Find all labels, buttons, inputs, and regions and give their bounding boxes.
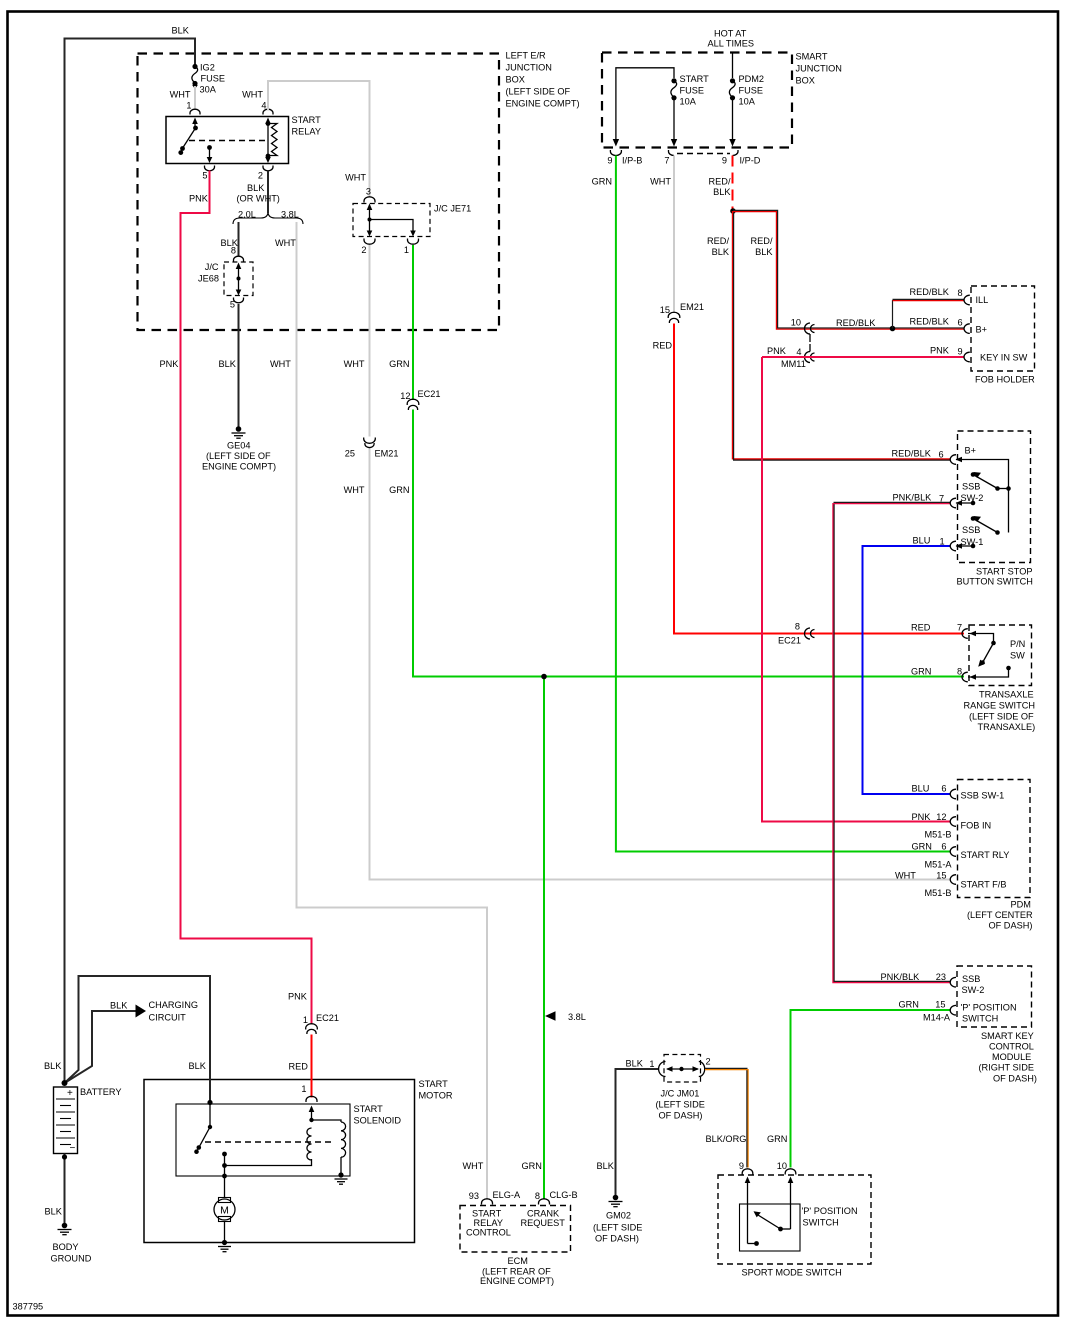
J/C JM01 connectors and internals [659, 1057, 711, 1077]
wire RED EC21 to start motor pin 1 [289, 1035, 312, 1098]
connector EC21 pin 12 (in-line, domes down) [407, 399, 419, 410]
wire WHT fuse to relay pin 1 [170, 86, 195, 111]
svg-text:SW: SW [1010, 651, 1025, 661]
svg-text:EM21: EM21 [680, 302, 704, 312]
svg-text:OF DASH): OF DASH) [595, 1234, 639, 1244]
svg-text:ELG-A: ELG-A [493, 1190, 521, 1200]
connector arc fob holder KEY IN SW pin 9 [964, 352, 970, 362]
wire PNK MM11 to fob holder KEY IN SW and PDM FOB IN [762, 346, 964, 840]
svg-text:2.0L: 2.0L [238, 210, 256, 220]
svg-text:OF DASH): OF DASH) [659, 1111, 703, 1121]
wire RED/BLK junction to fob holder B+/ILL (two-tone) [733, 210, 964, 329]
svg-text:1: 1 [940, 537, 945, 547]
svg-text:BLK/ORG: BLK/ORG [706, 1134, 747, 1144]
wire RED EM21 to EC21 pin 8 and transaxle pin 7 [653, 324, 964, 646]
svg-text:FOB HOLDER: FOB HOLDER [975, 375, 1035, 385]
svg-text:1: 1 [404, 245, 409, 255]
wire BLK battery to charging circuit [65, 1000, 199, 1083]
svg-text:10A: 10A [680, 97, 697, 107]
smart junction box (dashed enclosure) [602, 29, 842, 148]
wire BLK battery positive to start motor [65, 976, 211, 1103]
svg-text:+: + [67, 1088, 73, 1099]
svg-text:MOTOR: MOTOR [419, 1091, 453, 1101]
wire RED/BLK dashed I/P-D to junction [709, 156, 733, 212]
svg-text:SMART: SMART [796, 52, 828, 62]
svg-text:FUSE: FUSE [201, 74, 226, 84]
svg-text:J/C JE71: J/C JE71 [434, 204, 471, 214]
sport mode switch internals ('P' position switch) [745, 1177, 794, 1246]
wire BLK J/C JM01 to ground GM02 [597, 1059, 659, 1197]
svg-text:START F/B: START F/B [961, 880, 1007, 890]
transaxle range switch internals (P/N SW) [968, 631, 1011, 680]
svg-text:'P' POSITION: 'P' POSITION [961, 1003, 1017, 1013]
svg-text:BLK: BLK [189, 1061, 207, 1071]
svg-text:GE04: GE04 [227, 441, 251, 451]
svg-text:BATTERY: BATTERY [80, 1087, 122, 1097]
svg-text:WHT: WHT [895, 871, 916, 881]
node junction on GRN at (544,676.5) [541, 674, 547, 680]
svg-text:10A: 10A [739, 97, 756, 107]
svg-text:ALL TIMES: ALL TIMES [708, 39, 754, 49]
svg-text:GRN: GRN [389, 359, 409, 369]
svg-text:(OR WHT): (OR WHT) [237, 194, 280, 204]
svg-text:BLK: BLK [712, 247, 730, 257]
wire WHT 3.8L branch to ECM START RELAY CONTROL [270, 222, 521, 1201]
motor M [214, 1198, 235, 1243]
svg-text:BLK: BLK [110, 1001, 128, 1011]
fuse PDM2 FUSE 10A [729, 74, 764, 107]
svg-text:GRN: GRN [767, 1134, 787, 1144]
wire BLK battery to IG2 fuse [65, 26, 196, 1084]
connector MM11 pin 4 (in-line, opens right) [805, 352, 815, 363]
svg-text:8: 8 [231, 246, 236, 256]
svg-text:RED: RED [911, 623, 931, 633]
3.8L tag arrow on GRN wire [545, 1011, 586, 1022]
svg-text:CLG-B: CLG-B [550, 1190, 578, 1200]
svg-text:BLK: BLK [597, 1161, 615, 1171]
sport mode switch box [718, 1175, 871, 1278]
svg-text:EC21: EC21 [778, 636, 801, 646]
connector arc PDM SSB SW-1 pin 6 [950, 789, 956, 799]
svg-text:START: START [292, 115, 322, 125]
svg-text:RED/BLK: RED/BLK [892, 449, 932, 459]
svg-text:3.8L: 3.8L [281, 210, 299, 220]
svg-text:START: START [472, 1209, 502, 1219]
J/C JE71 box [353, 204, 471, 237]
svg-text:(LEFT REAR OF: (LEFT REAR OF [482, 1267, 551, 1277]
J/C JM01 box [656, 1055, 705, 1121]
svg-text:JUNCTION: JUNCTION [506, 63, 552, 73]
svg-text:BLU: BLU [912, 784, 930, 794]
connector EC21 pin 8 (in-line, opens right) [805, 628, 815, 639]
svg-text:387795: 387795 [13, 1302, 44, 1312]
svg-text:WHT: WHT [344, 359, 365, 369]
svg-text:BODY: BODY [53, 1242, 79, 1252]
svg-text:REQUEST: REQUEST [521, 1218, 566, 1228]
svg-text:START RLY: START RLY [961, 850, 1010, 860]
connector arc JE71 pin 2 [364, 239, 375, 245]
svg-text:PNK: PNK [160, 359, 180, 369]
svg-text:BLK: BLK [44, 1061, 62, 1071]
svg-text:PNK/BLK: PNK/BLK [881, 972, 921, 982]
svg-text:30A: 30A [200, 85, 217, 95]
PDM box [958, 780, 1034, 931]
wire BLK 2.0L branch to J/C JE68 [221, 222, 239, 256]
svg-text:PNK: PNK [912, 812, 932, 822]
svg-text:TRANSAXLE: TRANSAXLE [979, 690, 1034, 700]
svg-text:1: 1 [186, 101, 191, 111]
svg-text:EC21: EC21 [418, 389, 441, 399]
svg-text:J/C JM01: J/C JM01 [661, 1089, 700, 1099]
svg-text:15: 15 [660, 305, 670, 315]
'P' position switch inner box [740, 1204, 858, 1251]
svg-text:(LEFT SIDE OF: (LEFT SIDE OF [506, 87, 571, 97]
svg-text:15: 15 [935, 1000, 945, 1010]
svg-text:5: 5 [230, 300, 235, 310]
svg-text:23: 23 [936, 972, 946, 982]
svg-text:SOLENOID: SOLENOID [354, 1116, 402, 1126]
connector EC21 pin 1 (in-line) [306, 1024, 318, 1034]
svg-text:1: 1 [303, 1015, 308, 1025]
svg-text:EC21: EC21 [316, 1013, 339, 1023]
svg-text:12: 12 [400, 391, 410, 401]
connector arc JE71 pin 1 [408, 239, 419, 245]
svg-text:(RIGHT SIDE: (RIGHT SIDE [979, 1063, 1034, 1073]
connector arc I/P-B pin 9 [610, 150, 621, 156]
transaxle range switch box [964, 625, 1036, 732]
wire BLK battery negative to body ground [45, 1154, 68, 1225]
svg-text:HOT AT: HOT AT [714, 29, 747, 39]
start solenoid internals [194, 1100, 345, 1175]
svg-text:6: 6 [941, 784, 946, 794]
start motor box [144, 1079, 453, 1243]
svg-text:JUNCTION: JUNCTION [796, 64, 842, 74]
svg-text:SW-2: SW-2 [962, 985, 985, 995]
svg-text:WHT: WHT [344, 485, 365, 495]
SJB output arrows at box edge [613, 139, 619, 147]
svg-text:RED/BLK: RED/BLK [836, 318, 876, 328]
svg-text:RELAY: RELAY [474, 1218, 503, 1228]
connector arc fob holder B+ pin 6 [964, 324, 970, 334]
svg-text:RED/BLK: RED/BLK [910, 287, 950, 297]
svg-text:PDM2: PDM2 [739, 74, 765, 84]
svg-text:8: 8 [535, 1191, 540, 1201]
svg-text:SMART KEY: SMART KEY [981, 1031, 1034, 1041]
svg-text:OF DASH): OF DASH) [989, 921, 1033, 931]
svg-text:BLK: BLK [755, 247, 773, 257]
svg-text:BLK: BLK [713, 187, 731, 197]
svg-text:RED/: RED/ [707, 236, 729, 246]
start relay internals: pin1 arrow, switch blade, pin5, coil, pin2 [178, 118, 277, 164]
svg-text:CONTROL: CONTROL [466, 1228, 511, 1238]
svg-text:10: 10 [777, 1161, 787, 1171]
connector arc ECM pin 93 [482, 1199, 493, 1205]
svg-text:PNK: PNK [767, 346, 787, 356]
wire PNK/BLK start stop SW-2 to smart key module (two-tone) [833, 493, 950, 983]
connector arc PDM START F/B pin 15 [950, 875, 956, 885]
2.0L / 3.8L split bracket [233, 210, 303, 225]
svg-text:IG2: IG2 [200, 63, 215, 73]
svg-text:WHT: WHT [463, 1161, 484, 1171]
svg-text:10: 10 [791, 318, 801, 328]
connector arc relay pin 4 [263, 109, 273, 114]
svg-text:8: 8 [958, 288, 963, 298]
svg-text:RED/BLK: RED/BLK [910, 317, 950, 327]
svg-text:M51-B: M51-B [925, 830, 952, 840]
connector arc start stop B+ pin 6 [950, 455, 956, 465]
svg-text:(LEFT SIDE: (LEFT SIDE [656, 1100, 705, 1110]
connector arc relay pin 5 [205, 166, 215, 171]
svg-text:7: 7 [957, 623, 962, 633]
svg-text:1: 1 [649, 1059, 654, 1069]
connector arc relay pin 2 [263, 166, 273, 171]
svg-text:EM21: EM21 [375, 449, 399, 459]
svg-text:RED/: RED/ [751, 236, 773, 246]
svg-text:PNK: PNK [288, 992, 308, 1002]
svg-text:PNK/BLK: PNK/BLK [893, 493, 933, 503]
svg-text:ILL: ILL [976, 295, 989, 305]
wire RED/BLK riser to ILL (two-tone) [893, 287, 965, 329]
svg-text:SSB: SSB [962, 525, 980, 535]
svg-text:'P' POSITION: 'P' POSITION [802, 1206, 858, 1216]
svg-text:ECM: ECM [508, 1256, 528, 1266]
svg-text:(LEFT CENTER: (LEFT CENTER [967, 910, 1033, 920]
connector arc ECM pin 8 CLG-B [539, 1199, 550, 1205]
svg-text:J/C: J/C [205, 262, 219, 272]
smart key control module box [957, 966, 1037, 1084]
start solenoid inner box [176, 1104, 401, 1176]
node battery positive junction [62, 1080, 68, 1086]
svg-text:BLK: BLK [626, 1059, 644, 1069]
wire WHT relay pin4 to J/C JE71 pin 3 [242, 81, 371, 198]
svg-text:5: 5 [202, 171, 207, 181]
fob holder box [971, 286, 1035, 385]
svg-text:FUSE: FUSE [680, 86, 705, 96]
svg-text:GRN: GRN [389, 485, 409, 495]
connector arc PDM START RLY pin 6 [950, 847, 956, 857]
start stop button switch box [957, 431, 1033, 587]
wire BLU start stop SW-1 to PDM SSB SW-1 [863, 536, 951, 795]
connector arc smart key 'P' position pin 15 M14-A [950, 1005, 956, 1015]
svg-text:MM11: MM11 [781, 359, 806, 369]
svg-text:START: START [680, 74, 710, 84]
svg-text:6: 6 [939, 450, 944, 460]
svg-text:BOX: BOX [796, 76, 815, 86]
svg-text:7: 7 [939, 494, 944, 504]
svg-text:WHT: WHT [650, 177, 671, 187]
svg-text:WHT: WHT [242, 90, 263, 100]
svg-text:8: 8 [957, 667, 962, 677]
svg-text:6: 6 [941, 842, 946, 852]
svg-text:GRN: GRN [911, 667, 931, 677]
svg-text:M51-B: M51-B [925, 888, 952, 898]
J/C JE68 box [198, 262, 253, 296]
svg-text:KEY IN SW: KEY IN SW [980, 353, 1028, 363]
start relay box [166, 115, 321, 164]
svg-text:P/N: P/N [1010, 639, 1025, 649]
svg-text:BOX: BOX [506, 75, 525, 85]
svg-text:SSB: SSB [962, 482, 980, 492]
wire GRN smart key 'P' position to sport mode switch pin 10 [767, 1000, 951, 1172]
connector EM21 pin 25 (in-line, cups up) [364, 438, 376, 448]
svg-text:CONTROL: CONTROL [989, 1042, 1034, 1052]
svg-text:3.8L: 3.8L [568, 1012, 586, 1022]
svg-text:B+: B+ [965, 446, 977, 456]
connector arc J/C JE71 pin 3 [364, 197, 375, 203]
J/C JE68 internals [236, 263, 242, 296]
wire BLK (OR WHT) relay pin2 [237, 171, 280, 214]
svg-text:GROUND: GROUND [51, 1254, 92, 1264]
svg-text:25: 25 [345, 449, 355, 459]
svg-text:SSB: SSB [962, 974, 980, 984]
svg-text:9: 9 [958, 347, 963, 357]
svg-text:RED: RED [289, 1062, 309, 1072]
ground GE04 [202, 426, 276, 471]
svg-text:(LEFT SIDE: (LEFT SIDE [593, 1223, 642, 1233]
connector arc start motor pin 1 [306, 1096, 317, 1102]
svg-text:SWITCH: SWITCH [962, 1014, 998, 1024]
svg-text:4: 4 [261, 101, 266, 111]
svg-text:MODULE: MODULE [992, 1052, 1031, 1062]
ground at start motor bottom [218, 1240, 231, 1252]
svg-text:WHT: WHT [170, 90, 191, 100]
wire RED/BLK junction to start stop button B+ (two-tone) [707, 211, 950, 460]
node RED/BLK at fob holder branch [890, 326, 896, 332]
svg-text:M: M [220, 1205, 229, 1217]
connector arc relay pin 1 [190, 109, 200, 114]
svg-text:3: 3 [366, 187, 371, 197]
fuse START FUSE 10A [671, 74, 709, 107]
svg-text:1: 1 [301, 1084, 306, 1094]
svg-text:START: START [419, 1079, 449, 1089]
svg-text:CRANK: CRANK [527, 1209, 560, 1219]
svg-text:CHARGING: CHARGING [149, 1000, 199, 1010]
svg-text:RELAY: RELAY [292, 127, 321, 137]
ground GM02 [593, 1195, 642, 1244]
connector arc JE68 pin 5 [234, 298, 244, 303]
body ground [51, 1223, 92, 1264]
svg-text:9: 9 [722, 156, 727, 166]
wire GRN I/P-B to PDM START RLY [592, 156, 953, 870]
svg-text:9: 9 [739, 1161, 744, 1171]
svg-text:M51-A: M51-A [925, 860, 953, 870]
svg-text:START STOP: START STOP [976, 567, 1033, 577]
svg-text:12: 12 [936, 812, 946, 822]
svg-text:PNK: PNK [930, 346, 950, 356]
svg-text:OF DASH): OF DASH) [993, 1074, 1037, 1084]
wire BLK JE68 pin5 to ground GE04 [219, 300, 239, 429]
svg-text:JE68: JE68 [198, 274, 219, 284]
svg-text:WHT: WHT [275, 238, 296, 248]
svg-text:9: 9 [607, 156, 612, 166]
svg-text:ENGINE COMPT): ENGINE COMPT) [202, 462, 276, 472]
svg-text:2: 2 [361, 245, 366, 255]
wire WHT JE71 pin2 to EM21 pin 25 then PDM START F/B [344, 245, 952, 898]
svg-text:I/P-B: I/P-B [622, 156, 642, 166]
wire BLK/ORG JM01 pin2 to sport mode switch pin 9 (two-tone) [705, 1068, 748, 1171]
connector MM11 pin 10 (in-line, opens right, with bracket) [805, 323, 815, 352]
svg-text:BLK: BLK [219, 359, 237, 369]
svg-text:CIRCUIT: CIRCUIT [149, 1013, 187, 1023]
svg-text:WHT: WHT [345, 173, 366, 183]
svg-text:BLK: BLK [172, 26, 190, 36]
node RED/BLK junction [730, 208, 736, 214]
ground inside start motor (solenoid coil) [335, 1172, 348, 1184]
svg-text:SSB SW-1: SSB SW-1 [961, 791, 1005, 801]
svg-text:B+: B+ [976, 325, 988, 335]
svg-text:FUSE: FUSE [739, 86, 764, 96]
svg-text:(LEFT SIDE OF: (LEFT SIDE OF [206, 451, 271, 461]
svg-text:ENGINE COMPT): ENGINE COMPT) [480, 1276, 554, 1286]
svg-text:PDM: PDM [1011, 900, 1031, 910]
svg-text:START: START [354, 1104, 384, 1114]
svg-text:6: 6 [958, 318, 963, 328]
svg-text:7: 7 [664, 156, 669, 166]
svg-text:BLK: BLK [45, 1207, 63, 1217]
svg-text:ENGINE COMPT): ENGINE COMPT) [506, 99, 580, 109]
svg-text:93: 93 [469, 1191, 479, 1201]
connector arc JE68 pin 8 [234, 256, 244, 261]
connector arcs sport mode switch pins 9 and 10 [742, 1169, 753, 1175]
svg-text:GRN: GRN [899, 1000, 919, 1010]
svg-text:GRN: GRN [592, 177, 612, 187]
svg-text:8: 8 [795, 622, 800, 632]
battery [44, 1061, 122, 1154]
svg-text:RED/: RED/ [709, 177, 731, 187]
svg-text:SWITCH: SWITCH [803, 1218, 839, 1228]
connector EM21 pin 15 (in-line, domes down) [668, 312, 680, 323]
svg-text:M14-A: M14-A [923, 1013, 951, 1023]
connector arcs pins 7 and 9 I/P-D (joined by dashes) [669, 150, 739, 156]
connector arc start stop SW-2 pin 7 [950, 498, 956, 508]
svg-text:WHT: WHT [270, 359, 291, 369]
wire PNK relay pin5 to EC21 pin 1 [160, 171, 339, 1026]
connector arc transaxle pin 8 [962, 672, 968, 682]
svg-text:I/P-D: I/P-D [740, 156, 761, 166]
svg-text:GRN: GRN [522, 1161, 542, 1171]
svg-text:SPORT MODE SWITCH: SPORT MODE SWITCH [742, 1268, 842, 1278]
svg-text:RANGE SWITCH: RANGE SWITCH [964, 701, 1035, 711]
svg-text:BLK: BLK [221, 238, 239, 248]
fuse IG2 30A [192, 63, 225, 95]
J/C JE71 internals [367, 204, 416, 237]
svg-text:GRN: GRN [912, 842, 932, 852]
left E/R junction box (dashed enclosure) [138, 51, 580, 331]
svg-text:RED: RED [653, 341, 673, 351]
svg-text:LEFT E/R: LEFT E/R [506, 51, 547, 61]
wire GRN JE71 pin1 to EC21 pin 12 / transaxle GRN / ECM CRANK REQUEST [389, 245, 964, 1201]
ECM box [460, 1206, 571, 1287]
svg-text:4: 4 [796, 347, 801, 357]
svg-text:2: 2 [258, 171, 263, 181]
wire WHT I/P pin7 to EM21 pin 15 [650, 156, 704, 316]
connector arc transaxle pin 7 [962, 629, 968, 639]
connector arc PDM FOB IN pin 12 [950, 817, 956, 827]
svg-text:BLK: BLK [247, 183, 265, 193]
connector arc smart key SSB SW-2 pin 23 [950, 977, 956, 987]
svg-text:FOB IN: FOB IN [961, 821, 992, 831]
start stop button switch internals [956, 457, 1011, 549]
connector arc fob holder ILL pin 8 [964, 295, 970, 305]
connector arc start stop SW-1 pin 1 [950, 541, 956, 551]
smart junction box internals: feed wires [616, 54, 733, 141]
svg-text:15: 15 [936, 871, 946, 881]
svg-text:(LEFT SIDE OF: (LEFT SIDE OF [969, 712, 1034, 722]
svg-text:2: 2 [706, 1057, 711, 1067]
svg-text:BLU: BLU [913, 536, 931, 546]
svg-text:GM02: GM02 [606, 1211, 631, 1221]
svg-text:TRANSAXLE): TRANSAXLE) [978, 722, 1036, 732]
